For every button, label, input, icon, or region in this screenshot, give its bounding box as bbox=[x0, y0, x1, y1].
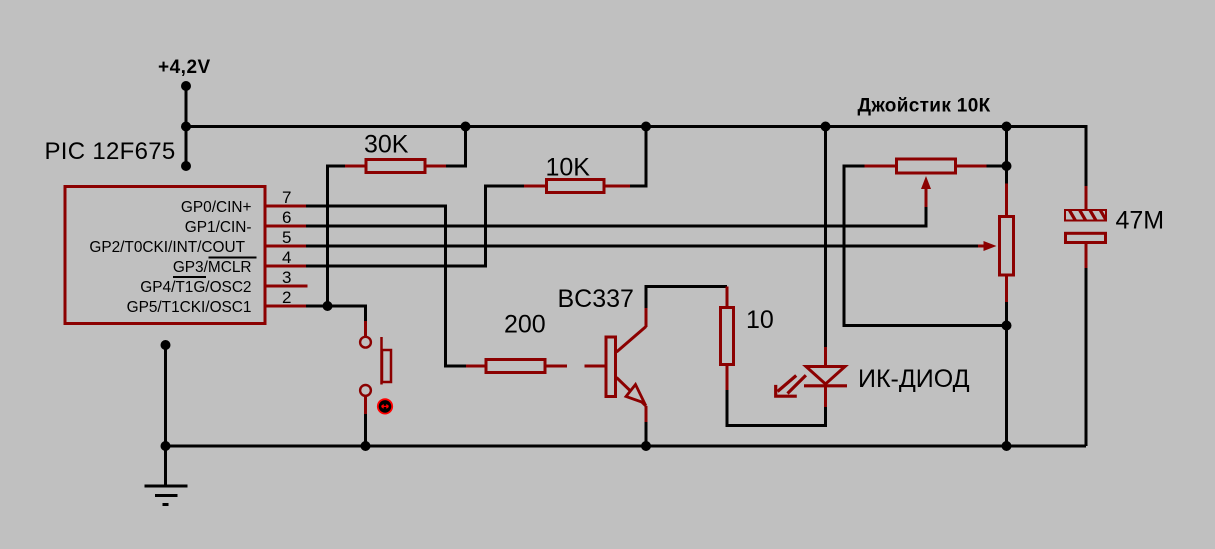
svg-text:+4,2V: +4,2V bbox=[158, 57, 211, 78]
overline MCLR bbox=[209, 257, 257, 259]
svg-text:BC337: BC337 bbox=[558, 285, 634, 313]
pin 4 stub GP3 bbox=[266, 265, 306, 268]
svg-text:47M: 47M bbox=[1116, 207, 1165, 235]
capacitor C1 47M bbox=[1064, 186, 1107, 268]
svg-text:2: 2 bbox=[282, 288, 291, 307]
svg-text:GP4/T1G/OSC2: GP4/T1G/OSC2 bbox=[140, 279, 251, 296]
resistor R2 10K bbox=[524, 180, 630, 193]
emission arrow head bbox=[774, 385, 797, 396]
switch S1 pushbutton bbox=[360, 321, 391, 414]
junction dot ground rail left bbox=[161, 441, 171, 451]
svg-text:7: 7 bbox=[282, 188, 291, 207]
wire potV bottom to ground rail bbox=[1005, 302, 1008, 446]
wire emitter to ground rail bbox=[645, 422, 648, 446]
wire pin6 to joystick H wiper bbox=[306, 207, 926, 226]
potentiometer P1 horizontal bbox=[865, 159, 987, 207]
junction dot potH right bbox=[1002, 161, 1012, 171]
junction dot rail R10K bbox=[641, 122, 651, 132]
svg-text:GP3/MCLR: GP3/MCLR bbox=[173, 259, 252, 276]
svg-text:30K: 30K bbox=[364, 131, 409, 159]
svg-text:10: 10 bbox=[746, 306, 774, 334]
junction dot rail R30K bbox=[461, 122, 471, 132]
wire potH right to node bbox=[987, 165, 1007, 168]
svg-text:GP1/CIN-: GP1/CIN- bbox=[185, 219, 252, 236]
diode D1 IR LED bbox=[774, 347, 847, 407]
ground symbol bbox=[145, 486, 188, 505]
wire bottom ground rail bbox=[166, 445, 1087, 448]
wire R 30K left to pin2 node bbox=[328, 166, 346, 306]
wire potH left to bottom link bbox=[844, 166, 1007, 326]
emission arrow shaft 2 bbox=[788, 375, 806, 393]
junction dot joystick bottom link bbox=[1002, 321, 1012, 331]
wire +4.2V stem bbox=[185, 86, 188, 166]
svg-text:GP2/T0CKI/INT/COUT: GP2/T0CKI/INT/COUT bbox=[89, 239, 245, 256]
svg-text:ИК-ДИОД: ИК-ДИОД bbox=[858, 365, 970, 393]
pin 2 stub GP5 bbox=[266, 305, 306, 308]
wire rail to diode anode bbox=[824, 127, 827, 348]
svg-text:GP0/CIN+: GP0/CIN+ bbox=[181, 199, 252, 216]
wire R 10K right to rail bbox=[630, 127, 646, 187]
transistor Q1 BC337 bbox=[585, 308, 647, 422]
wire top +V rail bbox=[186, 127, 1086, 187]
resistor R3 200 bbox=[466, 360, 567, 373]
junction dot rail diode bbox=[821, 122, 831, 132]
svg-text:3: 3 bbox=[282, 268, 291, 287]
svg-text:4: 4 bbox=[282, 248, 291, 267]
emission arrow shaft 1 bbox=[778, 376, 797, 392]
junction dot pin2 node bbox=[323, 301, 333, 311]
wire pin5 to joystick V wiper bbox=[306, 245, 978, 248]
junction dot ground rail emitter bbox=[641, 441, 651, 451]
junction dot IC ground terminal bbox=[161, 340, 171, 350]
wire ground stem bbox=[164, 446, 167, 486]
junction dot rail potV bbox=[1002, 122, 1012, 132]
pin 3 stub GP4 bbox=[266, 285, 308, 288]
resistor R1 30K bbox=[345, 160, 446, 173]
junction dot vcc rail bbox=[181, 122, 191, 132]
svg-text:PIC 12F675: PIC 12F675 bbox=[45, 138, 176, 165]
pin 6 stub GP1 bbox=[266, 225, 306, 228]
junction dot vcc top bbox=[181, 81, 191, 91]
svg-text:5: 5 bbox=[282, 228, 291, 247]
svg-text:Джойстик 10К: Джойстик 10К bbox=[858, 96, 991, 117]
wire button bottom to ground rail bbox=[364, 414, 367, 446]
junction dot vcc bottom bbox=[181, 161, 191, 171]
wire pin2 to button node bbox=[306, 306, 366, 321]
wire rail to potV top bbox=[1005, 127, 1008, 184]
wire cap bottom to ground rail bbox=[1085, 268, 1088, 446]
svg-text:10K: 10K bbox=[546, 154, 591, 182]
wire pin4 to R 10K bbox=[306, 186, 524, 266]
wire IC ground terminal to rail bbox=[164, 345, 167, 446]
wire collector to R 10 bbox=[646, 287, 727, 309]
junction dot ground rail button bbox=[361, 441, 371, 451]
wire pin7 to R200 bbox=[306, 206, 466, 366]
wire R 30K right to rail bbox=[446, 127, 466, 167]
pin 5 stub GP2 bbox=[266, 245, 306, 248]
pin 7 stub GP0 bbox=[266, 205, 306, 208]
overline T1G bbox=[173, 276, 206, 278]
svg-text:200: 200 bbox=[504, 311, 546, 339]
junction dot ground rail potV bbox=[1002, 441, 1012, 451]
potentiometer P2 vertical bbox=[978, 184, 1014, 303]
svg-text:GP5/T1CKI/OSC1: GP5/T1CKI/OSC1 bbox=[127, 299, 252, 316]
IC U1 PIC 12F675 body bbox=[65, 187, 265, 324]
wire R 10 bottom to diode cathode bbox=[727, 390, 826, 426]
resistor R4 10 bbox=[721, 287, 734, 391]
svg-text:6: 6 bbox=[282, 208, 291, 227]
marker handle on button bbox=[378, 399, 392, 413]
